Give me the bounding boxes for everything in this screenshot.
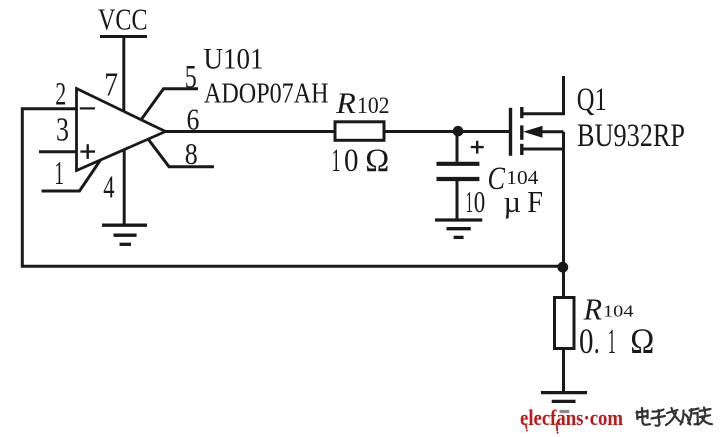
svg-text:F: F — [527, 184, 543, 219]
junction node B dot — [557, 262, 568, 273]
capacitor C104 polarity plus — [471, 141, 484, 154]
wire pin7 to VCC — [122, 37, 125, 113]
svg-text:µ: µ — [504, 184, 522, 219]
svg-text:Q1: Q1 — [577, 82, 607, 118]
capacitor C104 plates — [437, 164, 480, 179]
svg-text:1: 1 — [466, 184, 474, 219]
svg-text:ADOP07AH: ADOP07AH — [204, 79, 329, 110]
svg-text:5: 5 — [185, 59, 197, 95]
wire node A to C104 — [456, 132, 459, 162]
transistor Q1 channel segments — [520, 107, 523, 155]
wire R102 to gate, node A — [385, 130, 510, 133]
wire pin8 stub — [148, 139, 214, 167]
wire R104 to ground — [562, 349, 565, 392]
wire Q1 body lead — [541, 130, 564, 133]
svg-text:U101: U101 — [204, 43, 264, 75]
ground under C104 — [435, 220, 482, 237]
transistor Q1 body arrow — [523, 126, 542, 138]
svg-text:Ω: Ω — [630, 321, 654, 361]
transistor Q1 MOSFET gate bar — [509, 108, 512, 156]
wire feedback: pin2 left, down, bottom net — [22, 109, 563, 267]
resistor R102 body — [335, 122, 384, 141]
svg-text:0: 0 — [474, 184, 486, 219]
op-amp U101 triangle — [77, 89, 166, 171]
svg-text:104: 104 — [603, 301, 634, 320]
wire pin3 stub — [39, 150, 76, 153]
wire pin1 stub — [42, 159, 102, 191]
svg-text:2: 2 — [55, 77, 66, 113]
wire pin4 to ground — [123, 149, 126, 224]
svg-text:BU932RP: BU932RP — [577, 118, 685, 154]
svg-text:VCC: VCC — [98, 2, 148, 37]
svg-text:8: 8 — [185, 137, 198, 171]
op-amp inverting input minus sign — [80, 107, 95, 109]
svg-text:6: 6 — [187, 102, 200, 137]
wire Q1 source lead — [523, 148, 564, 151]
svg-text:1: 1 — [608, 321, 616, 361]
svg-text:102: 102 — [357, 93, 390, 118]
op-amp non-inverting input plus sign — [80, 144, 95, 159]
wire pin6 output to R102 — [165, 130, 335, 133]
junction node A dot — [453, 126, 464, 137]
svg-text:1: 1 — [54, 155, 64, 192]
svg-text:.: . — [594, 321, 600, 361]
svg-text:elecfans·com: elecfans·com — [520, 405, 623, 430]
wire pin5 stub — [141, 89, 198, 120]
wire Q1 source down to node B and R104 — [562, 132, 565, 298]
ground under op-amp — [102, 225, 147, 244]
svg-text:0: 0 — [344, 143, 359, 179]
resistor R104 body — [555, 298, 575, 349]
ground under R104 — [541, 393, 587, 412]
watermark chinese characters 电子发烧友 — [637, 408, 713, 426]
logo drip marks — [526, 423, 559, 434]
svg-text:3: 3 — [56, 111, 69, 148]
wire C104 to ground — [456, 181, 459, 219]
svg-text:7: 7 — [104, 67, 118, 104]
wire Q1 drain up stub — [523, 76, 564, 114]
power rail VCC bar — [100, 35, 147, 38]
svg-text:Ω: Ω — [365, 143, 389, 179]
svg-text:0: 0 — [579, 321, 594, 361]
svg-text:1: 1 — [332, 143, 341, 179]
svg-text:R: R — [335, 88, 356, 120]
svg-text:4: 4 — [103, 170, 114, 205]
